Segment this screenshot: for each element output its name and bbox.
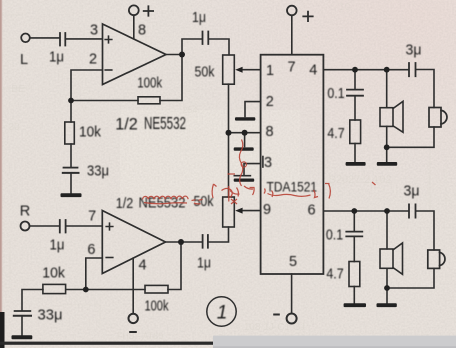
svg-text:3μ: 3μ	[406, 43, 422, 59]
svg-text:2: 2	[89, 52, 97, 68]
svg-text:7: 7	[288, 60, 296, 76]
svg-text:1: 1	[266, 63, 274, 79]
svg-text:R: R	[20, 203, 30, 219]
svg-text:TDA1521: TDA1521	[267, 179, 318, 195]
svg-text:10k: 10k	[42, 265, 65, 281]
svg-text:1/2: 1/2	[116, 195, 134, 212]
svg-text:50k: 50k	[194, 194, 215, 210]
svg-text:100k: 100k	[145, 299, 170, 315]
svg-text:3μ: 3μ	[404, 184, 420, 200]
svg-text:108 1J-C1 G1: 108 1J-C1 G1	[244, 322, 307, 333]
svg-text:10k: 10k	[79, 125, 102, 141]
svg-text:1: 1	[217, 303, 228, 324]
svg-text:NE5532: NE5532	[144, 113, 186, 133]
svg-text:1μ: 1μ	[192, 10, 206, 26]
svg-text:3: 3	[90, 22, 98, 38]
svg-text:0.1: 0.1	[327, 86, 344, 102]
svg-text:8: 8	[138, 23, 146, 39]
svg-text:30: 30	[8, 122, 20, 133]
svg-text:8: 8	[265, 124, 273, 140]
svg-text:FHBI- AT80: FHBI- AT80	[117, 331, 163, 341]
svg-text:BE: BE	[11, 84, 25, 95]
svg-text:4: 4	[309, 63, 317, 79]
svg-text:7: 7	[88, 208, 96, 224]
svg-text:9: 9	[263, 202, 271, 218]
svg-text:6: 6	[87, 242, 95, 258]
svg-text:1/2: 1/2	[115, 114, 138, 133]
svg-text:33μ: 33μ	[38, 308, 63, 324]
svg-text:1μ: 1μ	[49, 49, 64, 65]
svg-text:L: L	[20, 52, 28, 68]
svg-text:5: 5	[289, 254, 297, 270]
svg-text:50k: 50k	[195, 65, 216, 81]
svg-text:6: 6	[307, 203, 315, 219]
svg-text:10,: 10,	[339, 2, 353, 13]
svg-text:S2027-2 102: S2027-2 102	[329, 174, 392, 186]
svg-text:4.7: 4.7	[326, 267, 343, 283]
svg-text:1μ: 1μ	[50, 237, 65, 253]
svg-text:3: 3	[264, 155, 272, 171]
svg-text:4: 4	[138, 258, 146, 274]
svg-text:100k: 100k	[137, 76, 163, 92]
svg-text:1μ: 1μ	[197, 256, 211, 272]
svg-text:33μ: 33μ	[87, 164, 109, 180]
svg-text:4.7: 4.7	[327, 126, 344, 142]
svg-text:2: 2	[266, 94, 274, 110]
svg-text:0.1: 0.1	[326, 228, 343, 244]
